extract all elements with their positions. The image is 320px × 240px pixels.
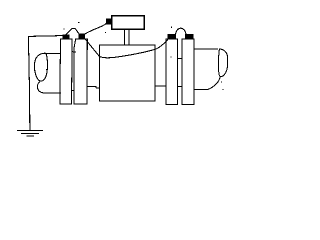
wire clamp L2 down to body	[85, 39, 99, 57]
clamp R1 (black)	[168, 34, 177, 39]
speckle dot near clamp L1	[63, 28, 64, 29]
jumper wire clamp L1 to clamp L2	[66, 28, 79, 34]
ground symbol bar 3	[27, 135, 33, 137]
flange gap connector mid (right pair)	[178, 57, 182, 59]
wire clamp L2 to box connector	[85, 23, 107, 34]
jumper wire clamp R1 to clamp R2 (arc)	[176, 28, 187, 34]
flange R1	[166, 39, 178, 104]
pipe left end lower curl	[37, 81, 42, 92]
pipe left end opening (ellipse)	[34, 53, 47, 81]
ground wire vertical	[28, 36, 29, 130]
stem right line	[128, 29, 130, 45]
pipe right top edge	[194, 48, 218, 50]
speckle dot above tent wire	[78, 22, 79, 23]
long wire across body to clamp R1	[99, 40, 167, 58]
clamp L2 (black)	[78, 34, 85, 40]
ground symbol bar 1	[18, 130, 43, 132]
flange gap connector bottom (right pair)	[178, 85, 182, 87]
meter body	[100, 45, 155, 101]
stem left line	[123, 29, 125, 45]
terminal box	[112, 16, 144, 29]
clamp R2 (black)	[185, 34, 193, 39]
pipe right end lower curl	[208, 77, 220, 90]
speckle dot below right curl	[223, 89, 224, 90]
speckle dot on flange R1	[171, 57, 172, 58]
flange L1	[60, 39, 72, 104]
flange gap connector top (left pair)	[72, 51, 76, 52]
pipe right end opening (ellipse)	[218, 49, 227, 77]
speckle dot near left ellipse	[46, 69, 47, 70]
speckle dot below box connector	[105, 32, 106, 33]
clamp L1 (black)	[63, 35, 70, 40]
flange gap connector bottom (left pair)	[72, 90, 75, 92]
flange L2	[74, 39, 87, 104]
ground wire horizontal	[28, 35, 62, 38]
pipe left bottom edge	[43, 92, 61, 94]
speckle dot near right curl	[221, 82, 222, 83]
neck line flange L2 to body	[87, 86, 100, 88]
neck line body to flange R1	[155, 85, 166, 87]
box connector (black)	[106, 19, 112, 25]
flange R2	[182, 39, 194, 104]
pipe left top edge	[46, 53, 60, 55]
speckle dot above clamp R1	[171, 27, 172, 28]
pipe right bottom edge	[194, 88, 208, 90]
ground symbol bar 2	[22, 133, 39, 135]
